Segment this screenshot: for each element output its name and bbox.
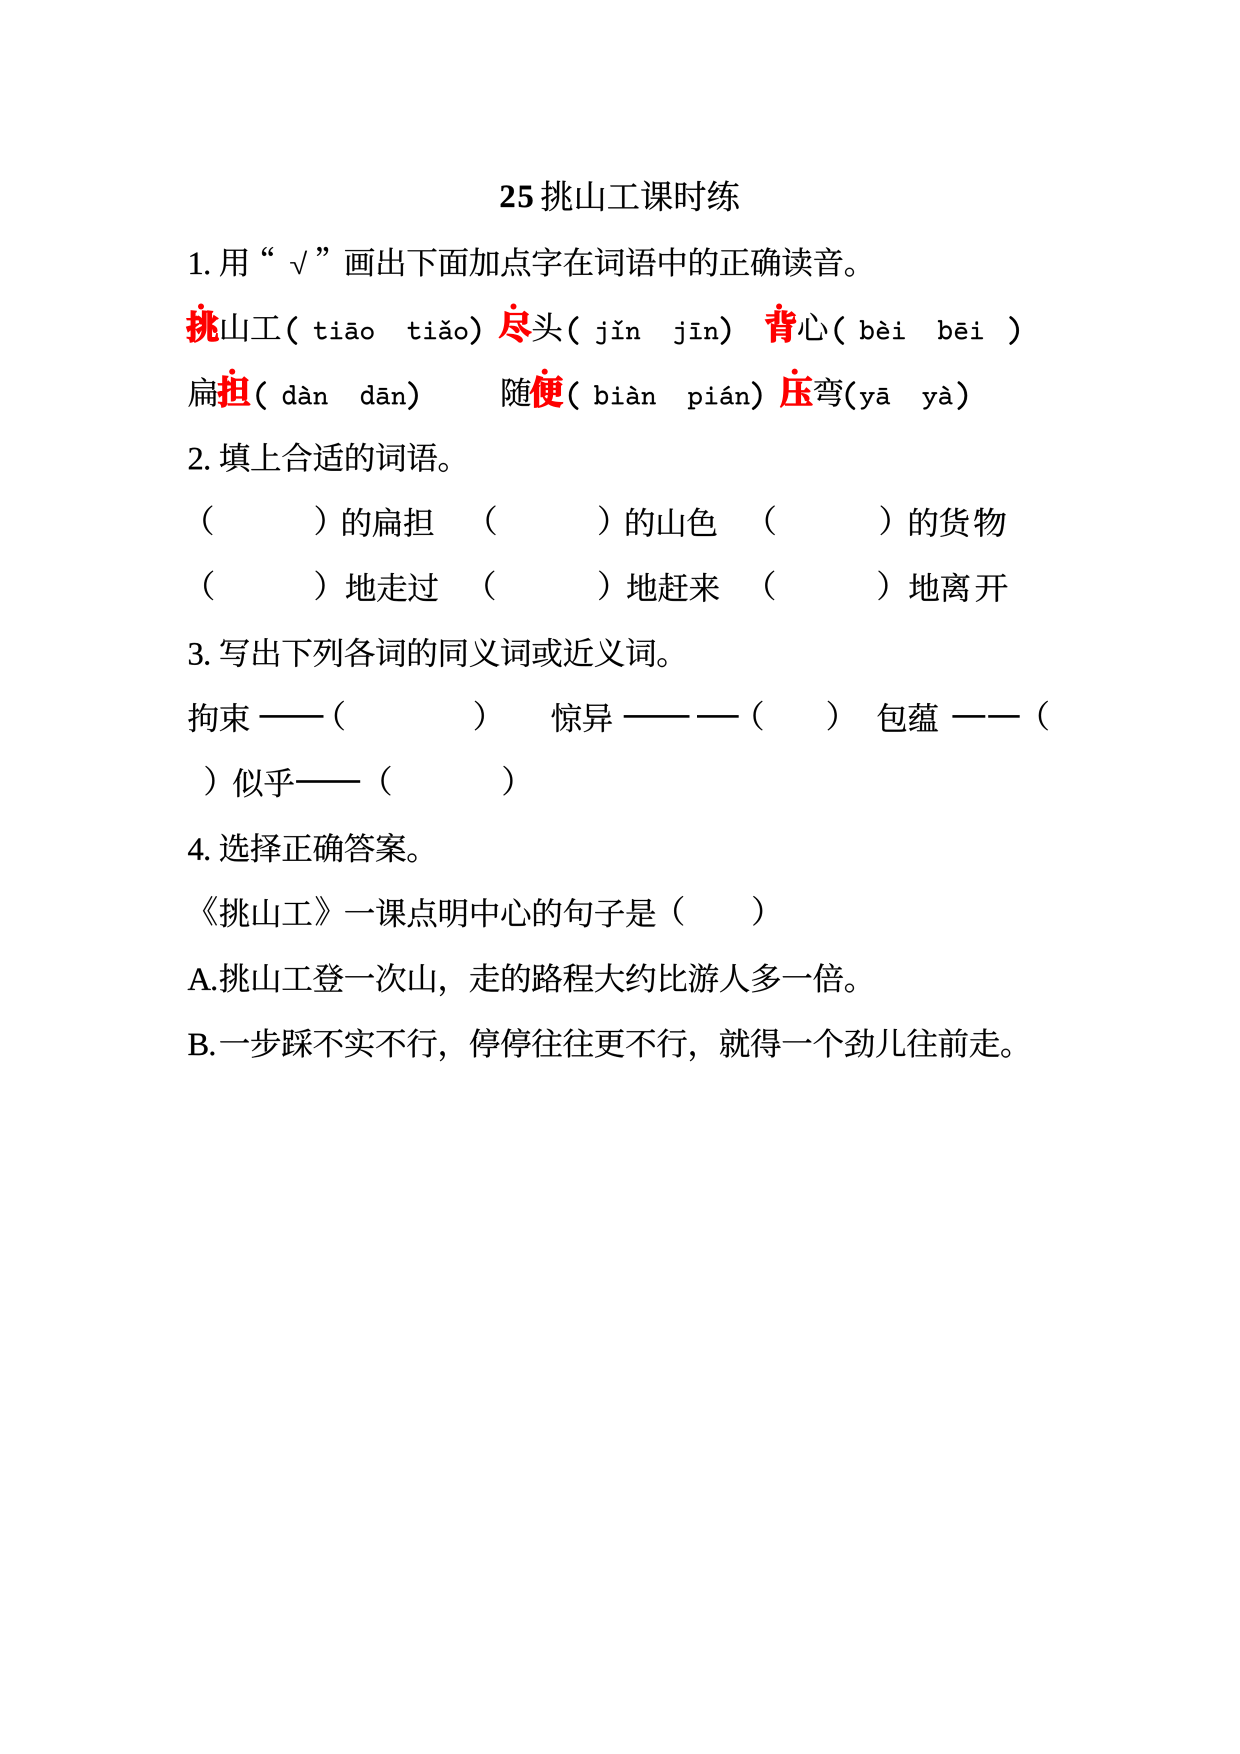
option A [188,968,211,989]
option B [188,1034,207,1055]
synonym row: 拘束 惊异 包蕴 [188,703,218,732]
synonym row continued: 似乎 [205,766,214,796]
fill blank row: 地走过 地赶来 地离开 [204,571,213,601]
pinyin choice row 1 [187,311,219,342]
question 4 text [188,838,203,859]
title: 25 挑山工课时练 [501,185,514,207]
question 2 text [189,448,202,470]
question 3 text [189,643,202,665]
fill blank row: 的扁担 的山色 的货物 [203,506,212,536]
pinyin choice row 2 [189,377,217,406]
question 1 text [190,253,201,274]
question sentence with 《挑山工》 [203,896,217,925]
